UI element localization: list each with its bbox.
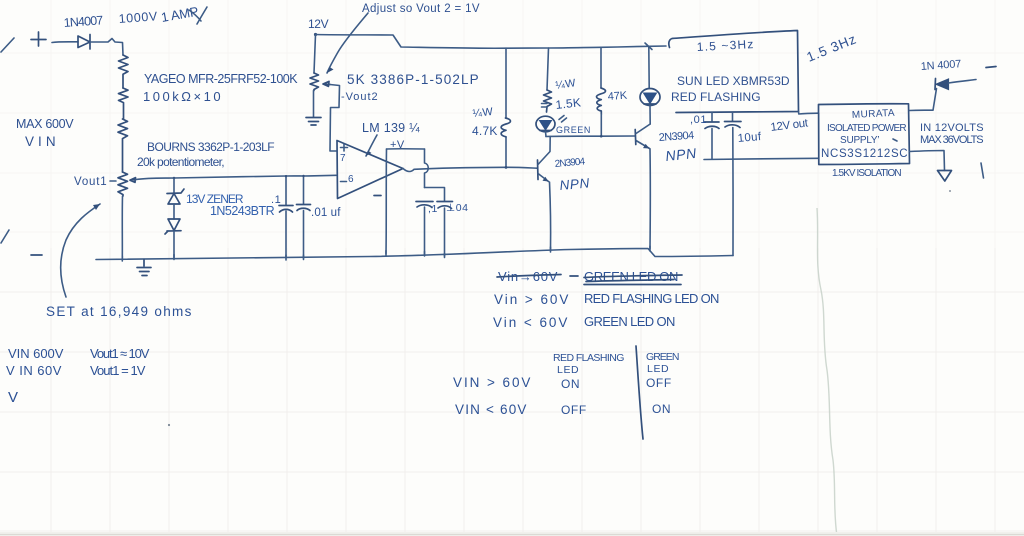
resistor R6 47K lead top: [600, 47, 602, 88]
potentiometer R3 wiper arrow: [323, 81, 330, 86]
svg-text:SUN LED XBMR53D: SUN LED XBMR53D: [677, 74, 790, 88]
arrow SET to pot R2: [61, 204, 100, 297]
svg-text:1.5K: 1.5K: [555, 95, 582, 112]
wire D2 to base net: [545, 132, 548, 137]
svg-text:Vin < 60V: Vin < 60V: [493, 315, 568, 330]
junction R4 output: [505, 166, 508, 169]
resistor R4 4.7K element: [501, 118, 510, 137]
potentiometer R2 wiper arrow: [130, 178, 136, 183]
junction dots vout1 wire: [285, 175, 287, 177]
svg-text:V IN 60V: V IN 60V: [6, 363, 62, 378]
ground G1: [137, 260, 151, 276]
junction R6 base wire: [600, 135, 603, 138]
note line1 dash: [570, 275, 578, 277]
op-amp U1 pin6 minus mark: [341, 181, 347, 183]
arrow label to U1: [366, 135, 377, 156]
resistor R6 47K element scribble: [597, 88, 606, 114]
svg-text:SUPPLY’: SUPPLY’: [840, 135, 880, 146]
svg-text:7: 7: [340, 153, 346, 164]
potentiometer R3 5K element: [310, 73, 319, 91]
svg-text:SET at 16,949 ohms: SET at 16,949 ohms: [46, 304, 192, 319]
box B1 SUN LED module outline: [669, 31, 799, 113]
wire murata lower pin 0V return: [704, 158, 819, 159]
wire R3 bottom to ground: [313, 91, 315, 118]
svg-text:Vout1 ≈ 10V: Vout1 ≈ 10V: [90, 346, 150, 361]
svg-text:4.7K: 4.7K: [472, 124, 498, 138]
wire to zener ZD1: [173, 178, 175, 193]
pen speck 2: [949, 190, 951, 192]
capacitor C5 lead bottom: [711, 129, 713, 159]
bottom rail ground wire: [96, 249, 733, 260]
LED D2 triangle: [540, 121, 552, 131]
svg-text:6: 6: [348, 174, 354, 185]
capacitor C3 lead bottom: [424, 207, 426, 254]
junction D3 rail: [645, 43, 652, 50]
resistor R6 lead bottom: [600, 114, 602, 136]
svg-text:OFF: OFF: [646, 376, 672, 390]
svg-text:ON: ON: [652, 402, 671, 416]
svg-text:BOURNS 3362P-1-203LF: BOURNS 3362P-1-203LF: [147, 140, 275, 154]
minus terminal right: [986, 67, 996, 68]
capacitor C1 lead bottom: [285, 211, 287, 258]
resistor R1c 100k chain segment: [118, 119, 128, 172]
svg-text:LED: LED: [557, 364, 579, 376]
svg-text:V: V: [8, 389, 19, 406]
wire murata lower right pin to earth: [910, 151, 945, 171]
svg-text:1000V: 1000V: [118, 9, 158, 26]
svg-text:1N5243BTR: 1N5243BTR: [210, 204, 275, 218]
Q2 emitter lead to rail: [649, 149, 651, 249]
svg-text:MURATA: MURATA: [852, 108, 896, 121]
capacitor C2 lead bottom: [303, 211, 305, 259]
svg-text:LM 139 ¼: LM 139 ¼: [362, 121, 420, 135]
box B2 Murata outline: [819, 104, 910, 165]
zener ZD2 13V: [165, 219, 181, 234]
label B2 tick: [893, 139, 897, 141]
label minus supply: [374, 195, 381, 197]
Q1 collector: [538, 137, 550, 165]
wire green LED / 47K to Q2 base: [546, 135, 635, 138]
wire + to diode D1: [52, 41, 78, 44]
LED D2 light ticks: [559, 116, 567, 123]
ground G2: [306, 118, 321, 126]
transistor Q2 2N3904 base bar: [634, 130, 637, 145]
wire box B1 to murata top pin: [799, 112, 819, 115]
svg-text:NPN: NPN: [665, 145, 698, 164]
op-amp supply line vertical: [385, 149, 388, 254]
tee to cap C4: [425, 188, 445, 201]
flourish under 1 AMP: [189, 7, 207, 24]
diode D1 1N4007: [78, 35, 90, 50]
svg-text:VIN: VIN: [25, 134, 56, 149]
svg-text:GREEN: GREEN: [646, 351, 680, 363]
svg-text:MAX 600V: MAX 600V: [16, 117, 74, 131]
wire node Vout1 to opamp pin6: [136, 175, 336, 179]
svg-text:VIN > 60V: VIN > 60V: [453, 375, 531, 390]
svg-text:Adjust so Vout 2 = 1V: Adjust so Vout 2 = 1V: [362, 3, 480, 15]
scan edge mark mid-left: [1, 230, 9, 243]
Q1 emitter with arrow: [538, 174, 549, 182]
bypass cap drop with hop over output wire: [425, 149, 429, 188]
svg-text:GREEN: GREEN: [556, 125, 591, 135]
earth arrow symbol: [938, 171, 952, 182]
LED D3 red anode lead from rail: [648, 46, 650, 88]
svg-text:RED FLASHING: RED FLASHING: [553, 352, 625, 364]
svg-text:ISOLATED POWER: ISOLATED POWER: [827, 123, 907, 134]
svg-text:ON: ON: [561, 377, 580, 391]
stray mark right: [981, 163, 984, 178]
wire D1 to resistor chain: [90, 39, 123, 56]
label minus at Vout1: [110, 180, 116, 182]
svg-text:1.5 ~3Hz: 1.5 ~3Hz: [696, 37, 754, 54]
svg-text:.1: .1: [271, 194, 281, 206]
LED D3 cathode bar: [644, 103, 656, 105]
svg-text:LED: LED: [647, 363, 669, 375]
svg-text:2N3904: 2N3904: [658, 130, 695, 144]
capacitor C6 lead bottom to rail: [732, 128, 734, 256]
plus terminal: [31, 32, 46, 46]
strike through line1: [497, 275, 682, 285]
svg-text:10uf: 10uf: [737, 131, 762, 145]
capacitor C6 10uF stub: [732, 113, 734, 121]
LED D3 triangle: [644, 93, 657, 104]
paper bottom edge: [0, 532, 1024, 536]
potentiometer R2 20K element: [118, 172, 128, 196]
capacitor C2 plates: [297, 205, 311, 211]
rail junction ticks: [122, 246, 650, 261]
op-amp U1 LM139 body: [337, 141, 403, 199]
capacitor C1 .1 lead top: [285, 176, 287, 205]
capacitor C3 plates: [416, 202, 433, 208]
wire D3 to Q2 collector: [649, 106, 651, 125]
svg-text:Vout1: Vout1: [74, 176, 107, 188]
12V rail wire: [316, 35, 667, 49]
svg-text:Vout1 = 1V: Vout1 = 1V: [90, 363, 146, 378]
wire 12V to R3: [314, 35, 316, 74]
svg-text:VIN < 60V: VIN < 60V: [455, 402, 527, 417]
svg-text:5K 3386P-1-502LP: 5K 3386P-1-502LP: [347, 72, 479, 87]
capacitor C4 lead bottom: [444, 208, 446, 256]
resistor R1b 100k chain segment: [119, 88, 129, 119]
transistor Q1 2N3904 base bar: [537, 160, 540, 180]
resistor R1a 100k chain segment: [119, 55, 129, 88]
resistor R4 lead bottom: [505, 138, 507, 168]
svg-text:20k potentiometer,: 20k potentiometer,: [137, 155, 225, 169]
svg-text:1N4007: 1N4007: [63, 13, 104, 30]
svg-text:RED FLASHING: RED FLASHING: [671, 90, 761, 104]
label R5 1.5K tick: [542, 104, 548, 108]
capacitor C5 plates: [705, 122, 720, 129]
paper crease right side: [817, 208, 837, 536]
scan edge mark top-left: [1, 38, 14, 52]
svg-text:OFF: OFF: [561, 403, 587, 417]
LED D2 green circle: [536, 116, 555, 132]
wire ZD1 to ZD2: [173, 204, 175, 219]
wire +V tee to bypass caps: [387, 148, 425, 150]
wire ZD2 to rail: [173, 231, 175, 258]
resistor R5 1.5K lead top: [547, 48, 549, 90]
svg-text:YAGEO MFR-25FRF52-100K: YAGEO MFR-25FRF52-100K: [144, 72, 298, 86]
svg-text:⊥04: ⊥04: [446, 202, 469, 214]
svg-text:IN 12VOLTS: IN 12VOLTS: [920, 122, 984, 134]
op-amp U1 pin7 plus mark: [341, 144, 348, 151]
svg-text:Vin > 60V: Vin > 60V: [494, 292, 569, 307]
wire R2 bottom to rail: [121, 196, 123, 259]
Q1 emitter lead to rail: [550, 182, 551, 250]
Q2 collector: [636, 124, 650, 134]
capacitor C6 plates: [725, 122, 742, 128]
svg-text:100kΩ×10: 100kΩ×10: [143, 89, 221, 104]
LED D3 red circle: [640, 89, 660, 106]
resistor R4 4.7K lead top: [505, 48, 507, 118]
svg-text:1.5KV ISOLATION: 1.5KV ISOLATION: [832, 168, 902, 179]
capacitor C5 .01 lead top: [711, 112, 713, 121]
svg-text:47K: 47K: [607, 90, 628, 103]
svg-text:MAX 36VOLTS: MAX 36VOLTS: [920, 134, 984, 146]
pen speck 1: [168, 424, 170, 426]
table separator line: [636, 346, 643, 439]
Q2 emitter with arrow: [636, 141, 650, 149]
resistor R5 1.5K element: [544, 90, 552, 112]
diode D4 1N4007: [934, 79, 937, 90]
svg-text:¼W: ¼W: [472, 106, 494, 120]
node 12V: [314, 33, 317, 36]
capacitor C4 plates: [437, 202, 453, 209]
svg-text:NCS3S1212SC: NCS3S1212SC: [821, 148, 908, 160]
wire murata right top pin to diode D4: [910, 89, 937, 111]
svg-text:VIN 600V: VIN 600V: [8, 346, 64, 361]
arrow adjust to R3: [327, 13, 368, 73]
minus terminal bottom left: [31, 254, 42, 256]
wire D4 anode to minus terminal: [949, 80, 977, 84]
svg-text:,1: ,1: [428, 203, 438, 215]
capacitor C2 .01 lead top: [303, 176, 305, 204]
op-amp output wire to Q1 base: [403, 167, 537, 171]
svg-text:12V: 12V: [308, 17, 329, 31]
capacitor C1 plates: [279, 206, 293, 213]
svg-text:.01 uf: .01 uf: [311, 207, 341, 219]
LED D2 cathode bar: [540, 130, 551, 132]
svg-text:,01: ,01: [690, 114, 707, 126]
wire R3 wiper to opamp pin7: [330, 85, 340, 152]
svg-text:RED FLASHING LED ON: RED FLASHING LED ON: [584, 291, 720, 306]
svg-text:GREEN LED ON: GREEN LED ON: [584, 314, 676, 329]
junction zener top: [173, 177, 176, 180]
zener ZD1 13V: [167, 189, 184, 204]
svg-text:-Vout2: -Vout2: [341, 91, 378, 103]
svg-text:NPN: NPN: [559, 175, 591, 193]
